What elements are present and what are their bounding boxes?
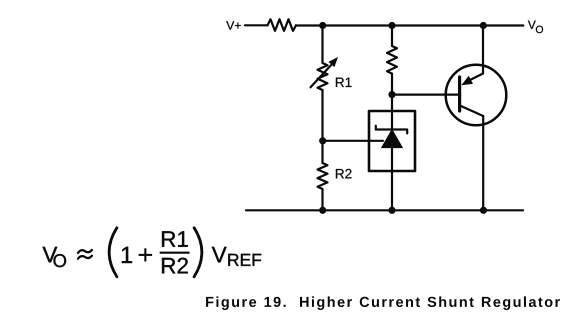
junction: collector on ground rail	[480, 207, 487, 214]
junction: R2 bottom on ground rail	[319, 207, 326, 214]
bias resistor (middle, unlabeled)	[387, 46, 397, 74]
formula subscript REF	[228, 254, 261, 266]
resistor R2	[318, 163, 328, 189]
wire: R2 to ground rail	[321, 189, 323, 210]
wire: V+ to series resistor	[245, 24, 268, 26]
wire: shunt reference cathode to ground rail (through box)	[391, 95, 393, 211]
node Vo label	[528, 21, 543, 33]
formula digit 1	[122, 247, 132, 263]
node V+ label	[226, 21, 241, 29]
variable resistor R1	[311, 57, 339, 90]
formula plus sign	[139, 248, 153, 261]
formula subscript O	[53, 254, 66, 267]
transistor Q1 collector	[460, 106, 483, 211]
formula fraction bar	[160, 252, 190, 254]
formula V	[43, 247, 58, 262]
wire: R1 to feedback node	[321, 90, 323, 141]
wire: series resistor to Vo output	[296, 24, 523, 26]
junction: feedback node (R1/R2)	[319, 137, 326, 144]
label R2	[336, 169, 352, 179]
wire: feedback node to shunt reference anode	[323, 140, 384, 142]
series resistor (top, unlabeled)	[268, 19, 297, 31]
shunt regulator U1 (boxed reference)	[369, 111, 415, 171]
wire: base node to transistor base	[392, 93, 460, 95]
junction node B (top of bias resistor)	[388, 22, 395, 29]
zener diode cathode bar	[376, 126, 407, 134]
caption: Figure 19. Higher Current Shunt Regulator	[206, 296, 560, 310]
wire: node B down to bias resistor	[391, 26, 393, 47]
junction: reference anode on ground rail	[388, 207, 395, 214]
formula approx sign	[78, 250, 92, 259]
formula left parenthesis	[109, 228, 117, 277]
junction node A (top of R1)	[319, 22, 326, 29]
transistor Q1 emitter (arrow into base)	[461, 26, 483, 86]
wire: bias resistor to base node	[391, 74, 393, 95]
formula right parenthesis	[194, 228, 202, 277]
label R1	[336, 78, 352, 87]
zener diode anode triangle	[382, 130, 403, 148]
formula denominator R2	[162, 258, 188, 274]
wire: feedback node down to R2	[321, 141, 323, 163]
ground rail	[246, 209, 523, 211]
transistor Q1 base bar	[458, 77, 461, 111]
transistor Q1 body	[446, 65, 507, 126]
formula V of Vref	[212, 247, 227, 262]
formula numerator R1	[162, 231, 188, 246]
junction: base drive node	[388, 91, 395, 98]
junction node C (emitter tie to output)	[480, 22, 487, 29]
wire: node A down to R1	[321, 26, 323, 64]
